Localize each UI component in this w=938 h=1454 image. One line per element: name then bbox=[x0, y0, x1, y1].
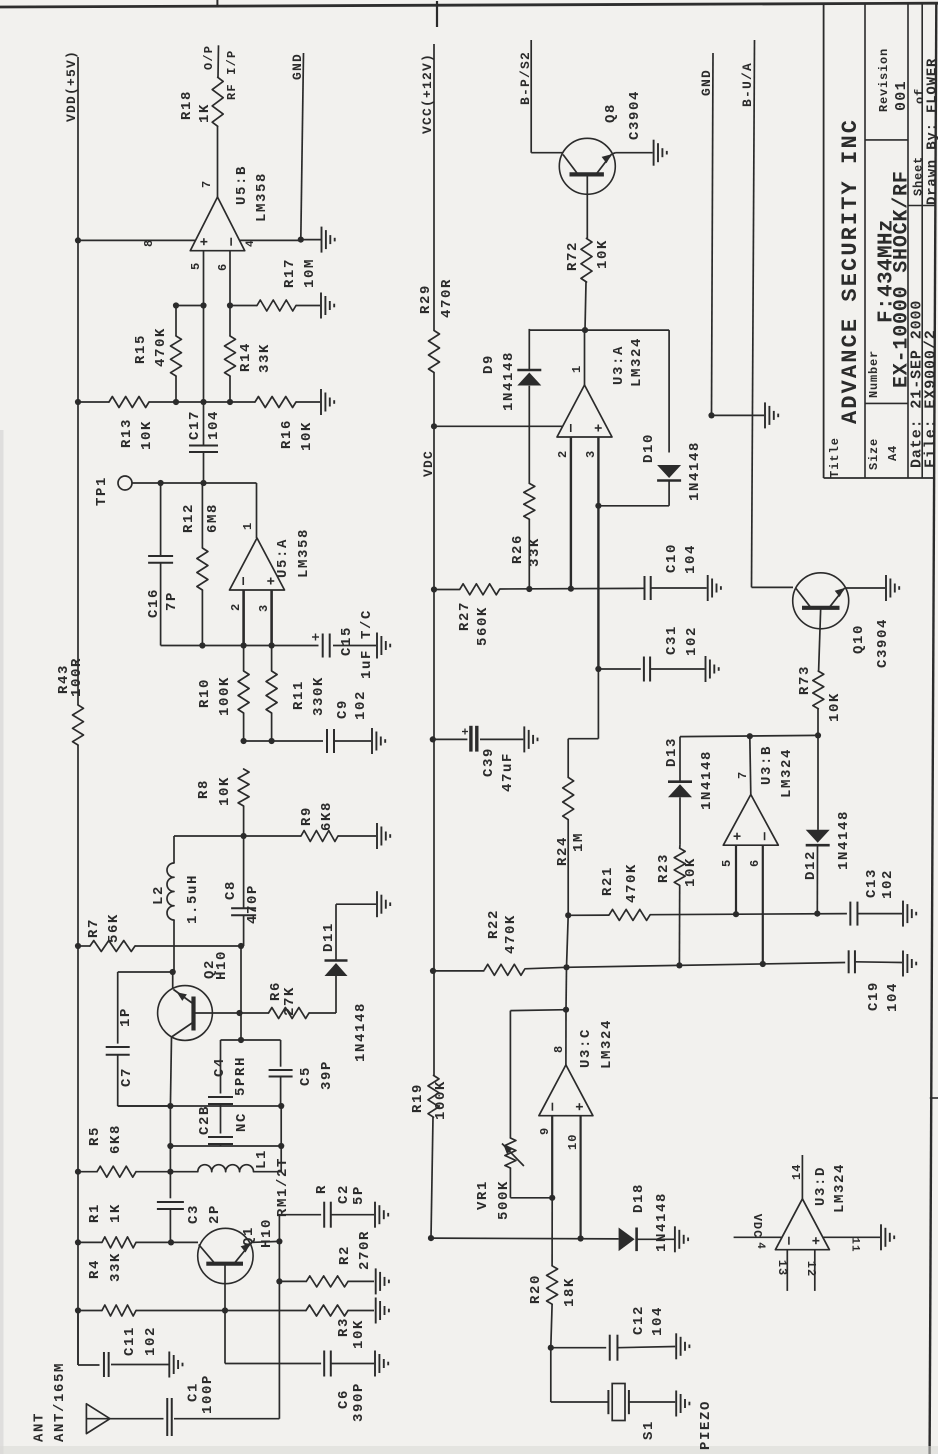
svg-text:C2B: C2B bbox=[197, 1105, 213, 1135]
resistor R21 bbox=[568, 914, 609, 916]
svg-text:1M: 1M bbox=[571, 832, 587, 852]
wire U3:B pin 5 bbox=[735, 845, 737, 914]
svg-text:VCC(+12V): VCC(+12V) bbox=[420, 53, 435, 134]
svg-text:R9: R9 bbox=[299, 806, 315, 826]
wire B-U/A to Q10 bbox=[752, 40, 755, 587]
svg-text:11: 11 bbox=[849, 1237, 861, 1252]
svg-text:5P: 5P bbox=[351, 1185, 367, 1205]
svg-text:C4: C4 bbox=[212, 1057, 228, 1077]
svg-text:R27: R27 bbox=[457, 601, 473, 631]
ground at C2 bbox=[374, 1202, 376, 1228]
wire U3:B pin 7 bbox=[750, 736, 751, 794]
resistor R12 bbox=[201, 483, 203, 548]
ground at U3:D pin 11 bbox=[880, 1224, 882, 1250]
resistor R43 in VDD rail bbox=[73, 705, 84, 745]
ground at D11 bbox=[376, 891, 378, 917]
ground at GND bus bbox=[764, 402, 766, 428]
svg-text:Q10: Q10 bbox=[851, 624, 867, 654]
wire tank link net bbox=[169, 1106, 171, 1146]
wire Q1 base to C6 bbox=[224, 1311, 226, 1364]
svg-text:47uF: 47uF bbox=[500, 752, 516, 792]
resistor R10 bbox=[243, 646, 245, 672]
ground at Q10 emitter bbox=[885, 575, 887, 601]
svg-text:1: 1 bbox=[570, 365, 584, 373]
wire VDD to U5:B pin 8 bbox=[75, 237, 81, 243]
svg-text:4: 4 bbox=[245, 239, 257, 247]
border frame right edge bbox=[930, 4, 937, 1454]
svg-text:LM358: LM358 bbox=[296, 528, 312, 578]
svg-text:470K: 470K bbox=[624, 863, 640, 903]
wire R7 base-bias net bbox=[75, 943, 81, 949]
capacitor C1 bbox=[166, 1398, 168, 1436]
title block divider Sheet/Date bbox=[908, 205, 935, 207]
svg-text:6K8: 6K8 bbox=[319, 801, 335, 831]
resistor R2 bbox=[276, 1278, 282, 1284]
svg-text:1P: 1P bbox=[118, 1007, 134, 1027]
resistor R26 bbox=[524, 483, 535, 519]
scan shading bottom edge bbox=[0, 1446, 938, 1454]
svg-text:10K: 10K bbox=[299, 421, 315, 451]
svg-text:10: 10 bbox=[566, 1134, 580, 1150]
svg-text:R4: R4 bbox=[87, 1259, 103, 1279]
svg-text:1: 1 bbox=[241, 522, 255, 530]
wire U3:D pin 4 VDC bbox=[734, 1236, 782, 1238]
svg-text:10K: 10K bbox=[217, 776, 233, 806]
wire U3:A pin 2 bbox=[570, 437, 572, 589]
wire VR1/pin8 net bbox=[565, 967, 568, 1009]
resistor R23 bbox=[674, 848, 685, 885]
svg-text:100K: 100K bbox=[217, 676, 233, 716]
antenna ANT bbox=[86, 1404, 110, 1434]
resistor R15 bbox=[171, 336, 182, 376]
svg-text:100P: 100P bbox=[200, 1374, 216, 1414]
wire U3:D pin 12 bbox=[814, 1250, 816, 1291]
resistor R8 bbox=[238, 769, 249, 806]
capacitor C4 bbox=[220, 1040, 222, 1094]
svg-text:U3:A: U3:A bbox=[611, 345, 627, 385]
capacitor C10 bbox=[644, 576, 646, 600]
resistor R16 bbox=[255, 397, 296, 408]
svg-text:4: 4 bbox=[754, 1242, 766, 1250]
svg-text:6M8: 6M8 bbox=[205, 503, 221, 533]
resistor R14 bbox=[225, 336, 236, 376]
svg-text:10M: 10M bbox=[302, 258, 318, 288]
diode D10 bbox=[668, 330, 670, 452]
svg-text:470P: 470P bbox=[245, 884, 261, 924]
wire R4 net bbox=[75, 1307, 81, 1313]
wire U3:A output bbox=[584, 330, 586, 385]
wire output net to D10 bbox=[529, 329, 669, 331]
svg-text:D13: D13 bbox=[664, 737, 680, 767]
capacitor C31 bbox=[595, 666, 601, 672]
svg-text:R72: R72 bbox=[565, 241, 581, 271]
svg-text:5PRH: 5PRH bbox=[233, 1056, 249, 1096]
wire U5:A pin 3 bbox=[270, 590, 273, 646]
resistor R13 bbox=[109, 397, 149, 408]
svg-text:Size: Size bbox=[867, 438, 881, 470]
svg-text:102: 102 bbox=[684, 626, 700, 656]
capacitor C15 polarized bbox=[322, 634, 324, 658]
inductor L2 bbox=[173, 836, 175, 863]
svg-text:56K: 56K bbox=[106, 913, 122, 943]
svg-text:1.5uH: 1.5uH bbox=[185, 874, 201, 924]
svg-text:C10: C10 bbox=[664, 543, 680, 573]
svg-text:1N4148: 1N4148 bbox=[654, 1192, 670, 1252]
svg-text:H10: H10 bbox=[214, 950, 230, 980]
svg-text:TP1: TP1 bbox=[94, 476, 110, 506]
svg-text:VDD(+5V): VDD(+5V) bbox=[64, 50, 79, 122]
svg-text:1uF T/C: 1uF T/C bbox=[359, 609, 375, 679]
svg-text:C2: C2 bbox=[336, 1184, 352, 1204]
svg-text:9: 9 bbox=[538, 1127, 552, 1135]
svg-text:100K: 100K bbox=[433, 1080, 449, 1120]
wire VDD rail corner to C11 bbox=[77, 1311, 79, 1366]
svg-text:VDC: VDC bbox=[421, 450, 436, 477]
svg-text:3: 3 bbox=[584, 450, 598, 458]
svg-text:102: 102 bbox=[143, 1326, 159, 1356]
svg-text:470K: 470K bbox=[153, 327, 169, 367]
svg-text:D10: D10 bbox=[641, 433, 657, 463]
svg-text:U5:A: U5:A bbox=[275, 538, 291, 578]
svg-text:RF I/P: RF I/P bbox=[225, 50, 239, 100]
ground at S1 bbox=[675, 1391, 677, 1417]
svg-text:R14: R14 bbox=[238, 342, 254, 372]
svg-text:R22: R22 bbox=[486, 909, 502, 939]
svg-text:C31: C31 bbox=[664, 625, 680, 655]
svg-text:C12: C12 bbox=[631, 1305, 647, 1335]
svg-text:10K: 10K bbox=[351, 1319, 367, 1349]
svg-text:C39: C39 bbox=[481, 747, 497, 777]
svg-text:Revision: Revision bbox=[877, 48, 891, 112]
wire GND to ground symbol bbox=[712, 414, 765, 416]
wire U3:B pin 6 bbox=[762, 845, 764, 964]
wire R5/L1 net bbox=[75, 1169, 81, 1175]
svg-text:1N4148: 1N4148 bbox=[699, 750, 715, 810]
svg-text:C5: C5 bbox=[298, 1066, 314, 1086]
svg-text:2P: 2P bbox=[207, 1204, 223, 1224]
ground at C39 bbox=[523, 726, 525, 752]
svg-text:R20: R20 bbox=[528, 1274, 544, 1304]
svg-text:C8: C8 bbox=[223, 880, 239, 900]
wire VCC rail bbox=[433, 44, 435, 331]
svg-text:104: 104 bbox=[650, 1306, 666, 1336]
op-amp U5:A bbox=[230, 538, 285, 590]
svg-text:C9: C9 bbox=[335, 699, 351, 719]
capacitor C13 bbox=[849, 902, 851, 926]
svg-text:2: 2 bbox=[229, 603, 243, 611]
svg-text:D11: D11 bbox=[321, 922, 337, 952]
transistor Q2 bbox=[158, 986, 213, 1041]
svg-text:Sheet: Sheet bbox=[912, 156, 926, 196]
wire Q2 emitter bbox=[172, 972, 174, 990]
wire Q1 emitter to C2 node bbox=[252, 1241, 279, 1242]
svg-text:LM324: LM324 bbox=[779, 748, 795, 798]
diode D9 bbox=[528, 329, 530, 370]
svg-text:PIEZO: PIEZO bbox=[698, 1400, 714, 1450]
svg-text:5: 5 bbox=[720, 859, 734, 867]
svg-text:U3:C: U3:C bbox=[578, 1028, 594, 1068]
resistor R5 bbox=[97, 1166, 136, 1177]
svg-text:102: 102 bbox=[353, 690, 369, 720]
svg-text:B-U/A: B-U/A bbox=[740, 62, 755, 107]
svg-text:LM324: LM324 bbox=[629, 337, 645, 387]
svg-text:33K: 33K bbox=[257, 343, 273, 373]
wire R19 to pin10 net bbox=[428, 1235, 434, 1241]
svg-text:Q8: Q8 bbox=[603, 103, 619, 123]
transistor Q8 bbox=[559, 138, 615, 194]
resistor R18 output bbox=[217, 126, 219, 197]
svg-text:R5: R5 bbox=[87, 1126, 103, 1146]
wire U3:C pin 10 bbox=[579, 1116, 581, 1239]
svg-text:R21: R21 bbox=[600, 866, 616, 896]
wire VR1 to pin 9 bbox=[510, 1197, 552, 1199]
svg-text:C15: C15 bbox=[339, 626, 355, 656]
svg-text:R: R bbox=[314, 1184, 330, 1194]
wire U3:D pin 13 bbox=[786, 1250, 788, 1291]
svg-text:R16: R16 bbox=[279, 419, 295, 449]
capacitor C7 feedback bbox=[118, 971, 173, 973]
op-amp U3:B bbox=[723, 795, 778, 846]
diode D12 bbox=[817, 735, 819, 830]
svg-text:U3:B: U3:B bbox=[759, 745, 775, 785]
wire GND stub bbox=[301, 53, 304, 240]
svg-text:U3:D: U3:D bbox=[813, 1166, 829, 1206]
svg-text:R26: R26 bbox=[510, 534, 526, 564]
ground at R2 bbox=[375, 1268, 377, 1294]
svg-text:1N4148: 1N4148 bbox=[836, 810, 852, 870]
resistor R27 bbox=[431, 586, 437, 592]
resistor R29 in VCC rail bbox=[429, 331, 440, 373]
svg-text:D9: D9 bbox=[481, 354, 497, 374]
scan shading left edge bbox=[0, 430, 4, 1454]
svg-text:C17: C17 bbox=[187, 410, 203, 440]
capacitor C17 bbox=[189, 445, 218, 447]
svg-text:A4: A4 bbox=[886, 445, 900, 461]
resistor R17 bbox=[230, 305, 257, 307]
wire R13 net (VDD to divider) bbox=[75, 399, 81, 405]
wire TP1 net bbox=[132, 482, 257, 484]
wire Q10 emitter ground bbox=[845, 587, 885, 589]
transistor Q10 bbox=[793, 573, 849, 629]
svg-text:Drawn By: FLOWER: Drawn By: FLOWER bbox=[925, 58, 938, 205]
svg-text:1K: 1K bbox=[197, 103, 213, 123]
wire feedback net bbox=[161, 645, 319, 647]
svg-text:R29: R29 bbox=[418, 284, 434, 314]
border frame top edge bbox=[0, 3, 938, 7]
wire VDD rail vertical bbox=[77, 57, 79, 705]
svg-text:500K: 500K bbox=[496, 1180, 512, 1220]
resistor R4 bbox=[102, 1305, 136, 1316]
svg-text:Number: Number bbox=[867, 350, 881, 398]
ground at U5:B pin 4 bbox=[301, 239, 321, 241]
svg-text:C13: C13 bbox=[864, 868, 880, 898]
capacitor C3 bbox=[169, 1172, 171, 1199]
resistor R6 bbox=[240, 1012, 269, 1014]
svg-text:33K: 33K bbox=[108, 1252, 124, 1282]
wire U5:B pin 4 to GND node bbox=[240, 239, 301, 241]
svg-text:C19: C19 bbox=[866, 981, 882, 1011]
ground at C9 bbox=[371, 728, 373, 754]
svg-text:8: 8 bbox=[552, 1045, 566, 1053]
inductor L1 bbox=[198, 1165, 254, 1172]
wire to U5:A pin 1 bbox=[256, 483, 258, 538]
wire U3:C pin 8 output bbox=[565, 1010, 567, 1065]
title block frame bbox=[823, 4, 825, 478]
svg-text:C6: C6 bbox=[336, 1389, 352, 1409]
svg-text:5: 5 bbox=[189, 262, 203, 270]
svg-text:H10: H10 bbox=[259, 1218, 275, 1248]
svg-text:470R: 470R bbox=[439, 278, 455, 318]
op-amp U3:C bbox=[539, 1065, 593, 1116]
svg-text:R11: R11 bbox=[291, 680, 307, 710]
svg-text:6: 6 bbox=[216, 263, 230, 271]
svg-text:File: EX9000/2: File: EX9000/2 bbox=[923, 329, 938, 468]
resistor R19 in rail bbox=[428, 1075, 439, 1117]
svg-text:ANT/165M: ANT/165M bbox=[52, 1362, 68, 1442]
svg-text:7: 7 bbox=[200, 180, 214, 188]
svg-text:R15: R15 bbox=[133, 334, 149, 364]
svg-text:390P: 390P bbox=[351, 1382, 367, 1422]
resistor R7 bbox=[90, 941, 135, 952]
svg-text:O/P: O/P bbox=[202, 45, 216, 70]
node pin6/R14/R17 bbox=[227, 302, 233, 308]
svg-text:R12: R12 bbox=[181, 503, 197, 533]
svg-text:R10: R10 bbox=[197, 678, 213, 708]
wire D13/pin7/R73 net bbox=[680, 735, 818, 736]
svg-text:6: 6 bbox=[748, 859, 762, 867]
svg-text:8: 8 bbox=[142, 239, 156, 247]
wire R1 net bbox=[75, 1239, 81, 1245]
svg-text:L2: L2 bbox=[151, 885, 167, 905]
svg-text:470K: 470K bbox=[503, 914, 519, 954]
wire Q2 base to bias node bbox=[240, 946, 242, 1013]
ground at C11 bbox=[168, 1352, 170, 1378]
resistor R72 bbox=[586, 194, 588, 238]
svg-text:LM324: LM324 bbox=[599, 1019, 615, 1069]
wire U5:B pin 6 bbox=[229, 251, 231, 306]
ground at C10 bbox=[707, 575, 709, 601]
title block divider Size/Number bbox=[865, 402, 908, 404]
svg-text:R18: R18 bbox=[179, 90, 195, 120]
wire R20 to S1 bbox=[550, 1348, 552, 1402]
svg-text:330K: 330K bbox=[311, 676, 327, 716]
wire B-P/S2 to Q8 collector bbox=[530, 40, 532, 153]
wire pin3 to R24 bbox=[597, 669, 599, 739]
svg-text:D12: D12 bbox=[803, 850, 819, 880]
svg-text:270R: 270R bbox=[357, 1230, 373, 1270]
svg-text:C11: C11 bbox=[122, 1326, 138, 1356]
svg-text:104: 104 bbox=[885, 982, 901, 1012]
resistor R9 bbox=[244, 835, 301, 837]
svg-text:10K: 10K bbox=[827, 692, 843, 722]
svg-text:LM324: LM324 bbox=[832, 1163, 848, 1213]
ground at Q8 emitter bbox=[653, 140, 655, 166]
svg-text:R24: R24 bbox=[555, 836, 571, 866]
ground at C12 bbox=[675, 1333, 677, 1359]
node R24/R21 bbox=[565, 912, 571, 918]
resistor R20 bbox=[551, 1198, 553, 1266]
resistor R24 bbox=[567, 739, 569, 778]
svg-text:VDC: VDC bbox=[750, 1214, 764, 1239]
svg-text:001: 001 bbox=[893, 80, 910, 111]
resistor R73 bbox=[819, 629, 820, 671]
capacitor C11 bbox=[77, 1364, 79, 1366]
capacitor C2 bbox=[279, 1214, 321, 1216]
transistor Q1 bbox=[198, 1228, 253, 1283]
ground at C13 bbox=[902, 901, 904, 927]
capacitor C5 bbox=[280, 1040, 282, 1067]
capacitor C12 bbox=[548, 1345, 554, 1351]
wire emitter vertical bbox=[278, 1215, 280, 1242]
wire U5:B pin 5 bbox=[203, 251, 205, 445]
ground at C31 bbox=[705, 656, 707, 682]
capacitor C19 bbox=[848, 950, 850, 973]
svg-text:GND: GND bbox=[699, 69, 714, 96]
resistor R11 bbox=[271, 646, 273, 672]
node pin5/R15 bbox=[200, 302, 206, 308]
wire U3:A pin 3 bbox=[597, 437, 599, 669]
svg-text:1N4148: 1N4148 bbox=[353, 1002, 369, 1062]
wire C4/C5 top net bbox=[221, 1039, 281, 1041]
svg-text:R73: R73 bbox=[797, 665, 813, 695]
ground at C6 bbox=[374, 1351, 376, 1377]
svg-text:D18: D18 bbox=[631, 1183, 647, 1213]
capacitor C6 bbox=[323, 1351, 325, 1377]
wire U5:A pin 2 bbox=[242, 590, 245, 646]
svg-text:R8: R8 bbox=[196, 779, 212, 799]
capacitor C2B (NC) bbox=[220, 1106, 222, 1134]
svg-text:1N4148: 1N4148 bbox=[687, 441, 703, 501]
ground at R3 bbox=[375, 1298, 377, 1324]
svg-text:560K: 560K bbox=[475, 606, 491, 646]
svg-text:39P: 39P bbox=[319, 1060, 335, 1090]
title block divider Number/Revision bbox=[865, 139, 908, 141]
svg-text:C7: C7 bbox=[119, 1067, 135, 1087]
capacitor C8 bbox=[243, 836, 245, 908]
wire GND bus bbox=[712, 53, 714, 415]
node Q2 base bias bbox=[238, 943, 244, 949]
resistor R3 bbox=[306, 1305, 348, 1316]
op-amp U3:A bbox=[557, 385, 612, 437]
svg-text:C3: C3 bbox=[186, 1204, 202, 1224]
ground at C19 bbox=[902, 951, 904, 977]
svg-text:10K: 10K bbox=[139, 420, 155, 450]
test point TP1 bbox=[118, 476, 132, 490]
svg-text:S1: S1 bbox=[641, 1420, 657, 1440]
svg-text:R7: R7 bbox=[86, 918, 102, 938]
ground at D18 bbox=[674, 1226, 676, 1252]
op-amp U3:D bbox=[775, 1199, 829, 1250]
svg-text:1K: 1K bbox=[108, 1203, 124, 1223]
wire U3:D pin 11 bbox=[823, 1236, 880, 1238]
svg-text:12: 12 bbox=[804, 1261, 818, 1277]
diode D18 bbox=[635, 1228, 638, 1252]
piezo sensor S1 bbox=[607, 1390, 609, 1414]
svg-text:18K: 18K bbox=[562, 1277, 578, 1307]
wire long alarm net bbox=[567, 963, 846, 968]
svg-text:27K: 27K bbox=[282, 986, 298, 1016]
svg-text:104: 104 bbox=[206, 410, 222, 440]
svg-text:NC: NC bbox=[234, 1112, 250, 1132]
svg-text:VR1: VR1 bbox=[475, 1180, 491, 1210]
svg-text:R17: R17 bbox=[282, 258, 298, 288]
svg-text:1N4148: 1N4148 bbox=[501, 351, 517, 411]
svg-text:R23: R23 bbox=[656, 853, 672, 883]
ground at R9 bbox=[376, 823, 378, 849]
svg-text:C16: C16 bbox=[146, 588, 162, 618]
ground at C15 bbox=[376, 633, 378, 659]
svg-text:R2: R2 bbox=[337, 1245, 353, 1265]
